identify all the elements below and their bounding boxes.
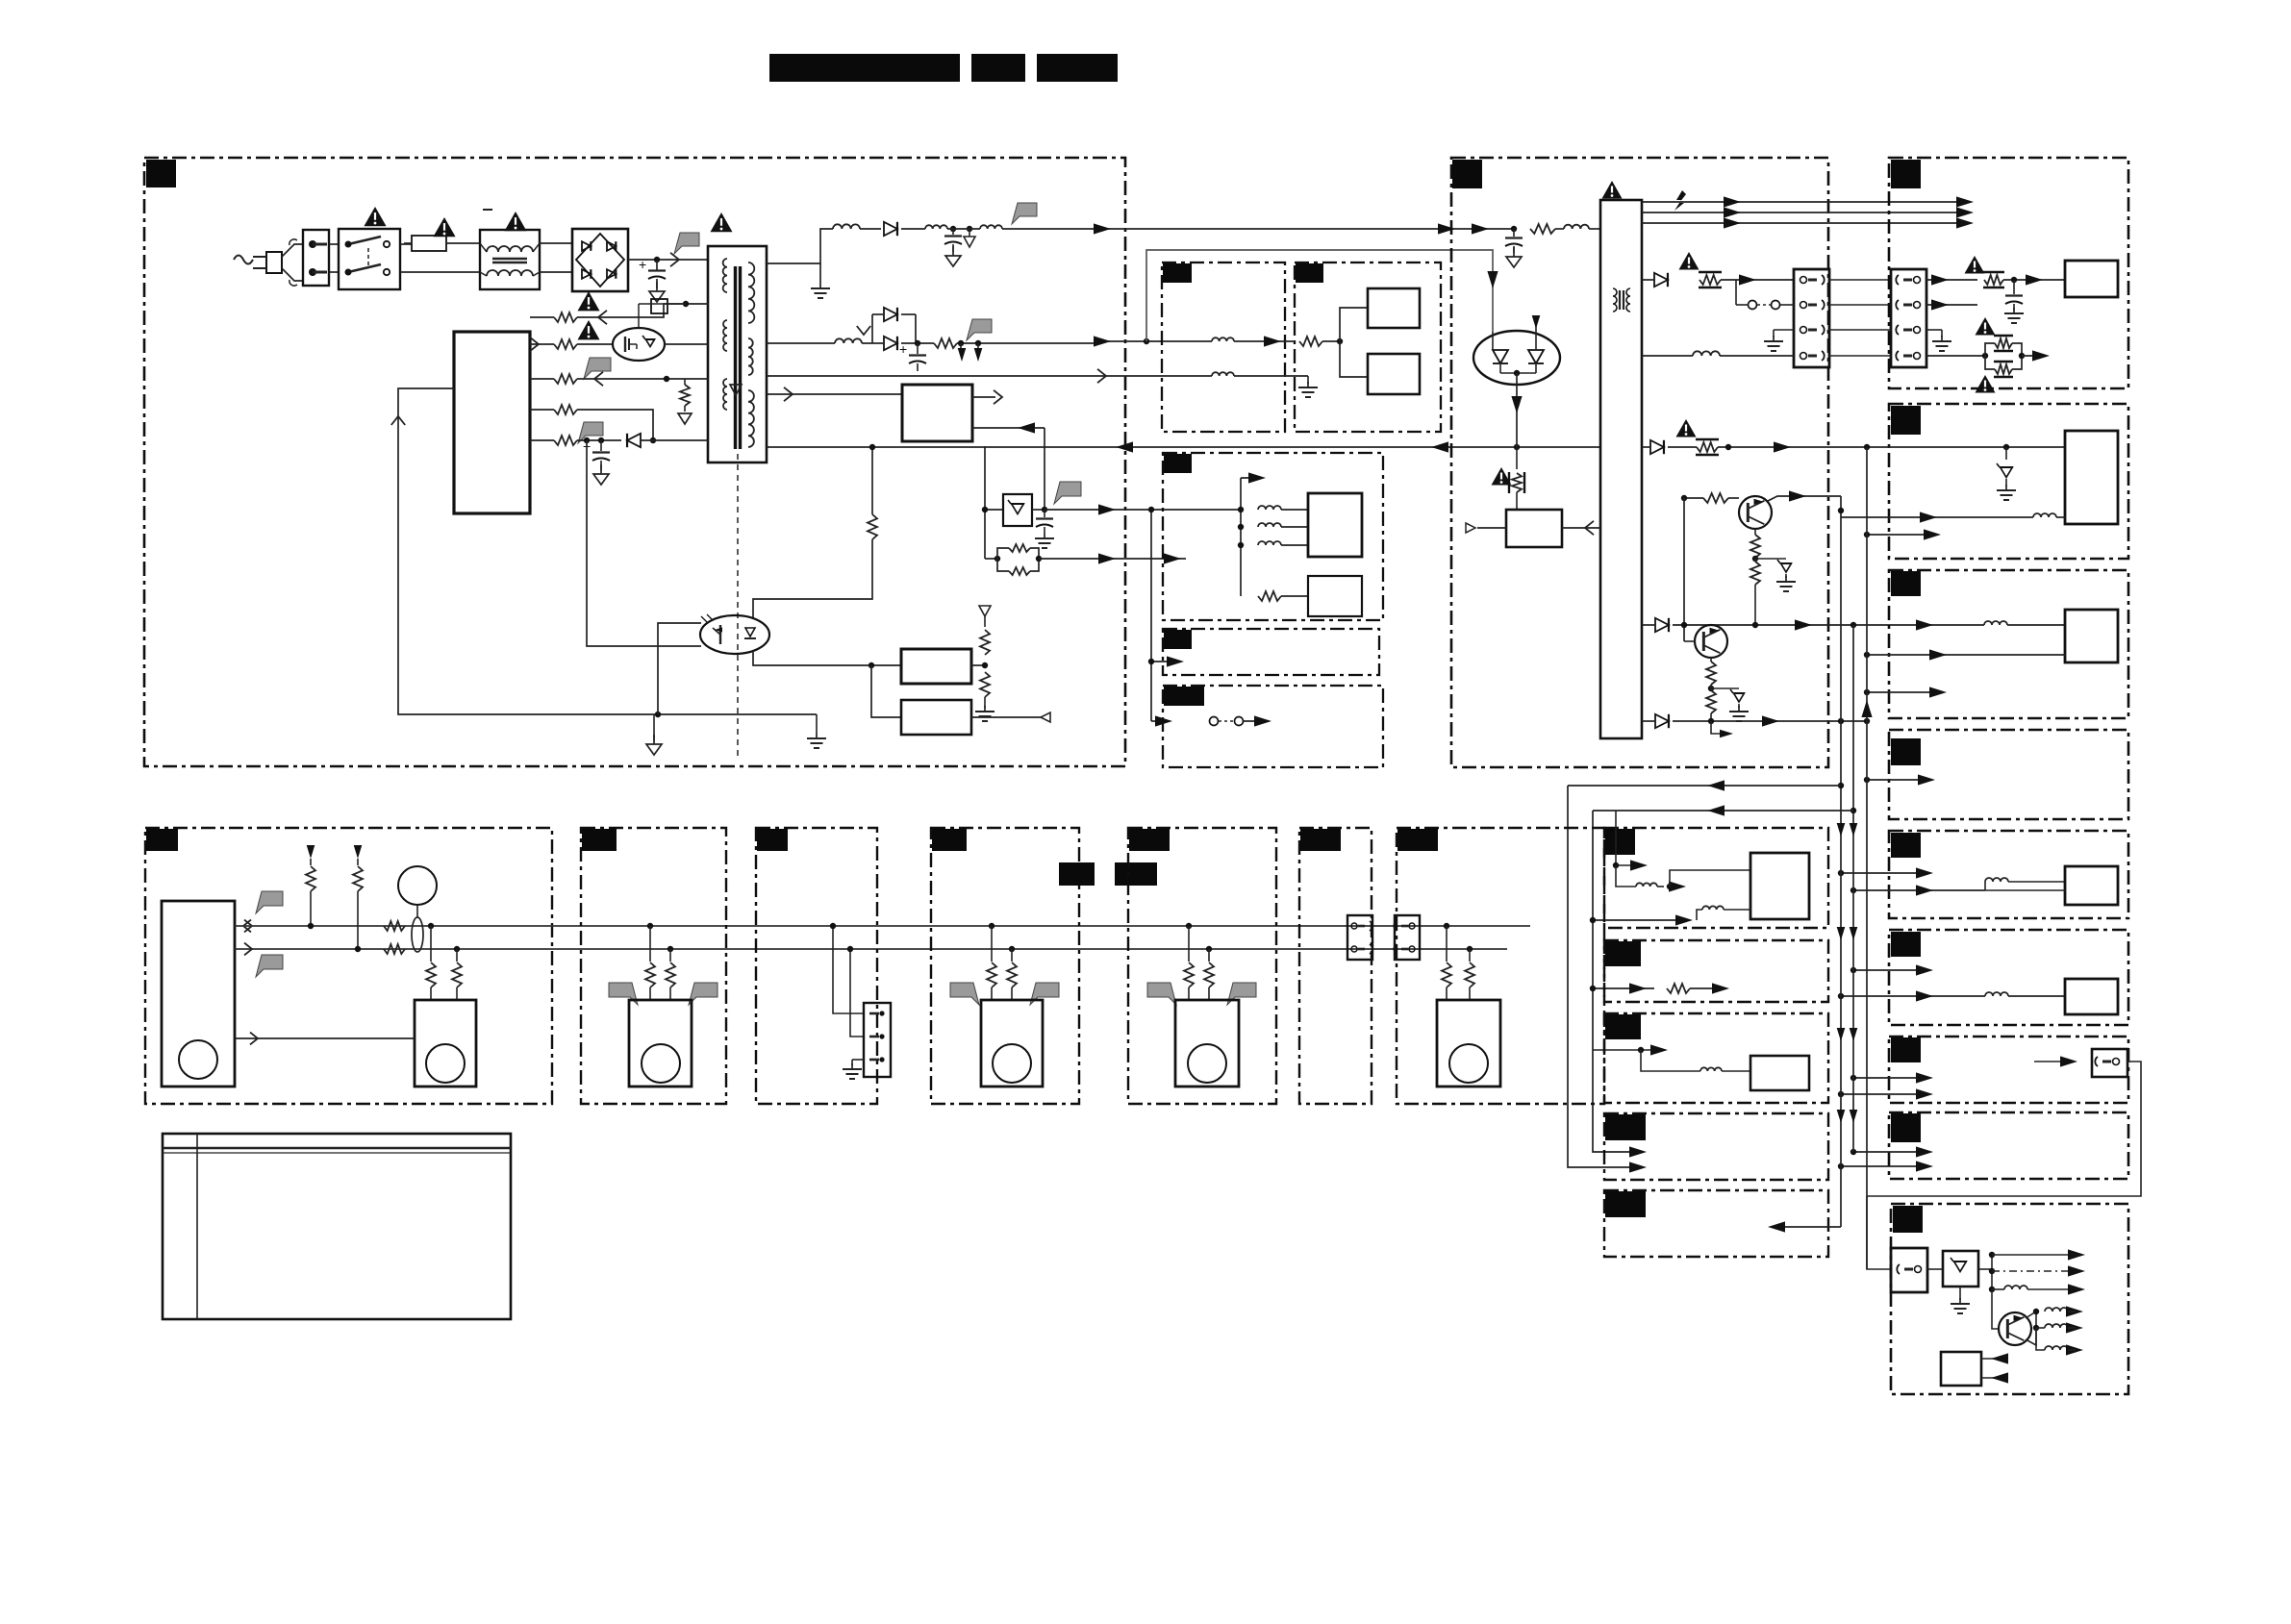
resistor R9 [554, 405, 577, 414]
row wire [530, 316, 554, 318]
terminal block J1 [303, 230, 329, 286]
capacitor C5 polarized [583, 438, 610, 485]
regulator block U3 [901, 700, 971, 735]
flag label [1227, 983, 1256, 1005]
inductor L3 [925, 225, 947, 229]
capacitor C4 [1035, 510, 1054, 548]
bus wire top [235, 925, 1530, 927]
warning triangle [1602, 181, 1623, 199]
flow arrow [670, 253, 679, 266]
arrow [974, 348, 983, 362]
arrow in [1981, 1377, 2005, 1379]
wire row 650 [1683, 498, 1685, 641]
sub box C2 outline [1295, 262, 1441, 432]
inductor L11 [2033, 513, 2056, 517]
board outline box M5 [1128, 828, 1276, 1104]
row3 [530, 378, 554, 380]
warning triangle [578, 291, 600, 311]
ground [1926, 330, 1951, 351]
wire [1234, 340, 1295, 342]
wire [628, 259, 708, 261]
diamond chevrons [243, 920, 252, 933]
box H4 label [1164, 630, 1192, 649]
resistor R15 [1530, 224, 1555, 234]
zener diode box D5 [982, 494, 1047, 526]
fusible resistor R17 [1699, 272, 1722, 287]
wire bus down2 [1852, 625, 1854, 1152]
sub box H3 outline [1163, 453, 1383, 620]
inductor L8 [1258, 506, 1281, 510]
power supply board outline box A [144, 158, 1125, 766]
main transformer T1 [708, 246, 767, 462]
zener diode D10 [1755, 559, 1796, 591]
wire [1684, 497, 1703, 499]
diode D7 [1654, 273, 1668, 287]
board outline box G2 [1889, 831, 2128, 918]
box H label [1605, 941, 1641, 966]
box A label [146, 160, 176, 187]
double arrows [1837, 823, 1846, 837]
capacitor C2 [944, 229, 962, 266]
resistor R6 [554, 339, 577, 349]
signal ground [646, 714, 662, 755]
block U4 [1368, 288, 1420, 328]
EHT wire 1 [1642, 201, 1968, 203]
resistor pair R19 R20 [1985, 336, 2025, 377]
box B label [1452, 160, 1482, 188]
inductor L21 [1641, 1050, 1750, 1071]
audio board outline box H [1604, 940, 1828, 1002]
ground [1764, 330, 1794, 351]
connector CN1 [1794, 269, 1829, 367]
row5 [530, 439, 554, 441]
wire [1593, 987, 1654, 989]
wire [540, 242, 572, 244]
connector CN4 [1891, 1248, 1927, 1292]
transistor Q3 [1695, 625, 1727, 658]
warning triangle [505, 212, 527, 231]
EHT wire 3 [1642, 222, 1968, 224]
resistor R31 [426, 926, 436, 1000]
connector CN5 [864, 1003, 891, 1077]
feedback vertical [398, 388, 817, 714]
video board outline box D [1889, 404, 2128, 559]
wire [1616, 811, 1640, 865]
AC plug P1 [253, 239, 303, 286]
wire 466 row [1718, 446, 2065, 448]
dashed switch link [1736, 280, 1794, 310]
wire [1853, 1151, 1926, 1153]
dashed isolation line [737, 454, 739, 760]
row4 [530, 409, 554, 411]
block U9 [2065, 261, 2118, 297]
wire [1044, 428, 1045, 510]
inductor L13 [1985, 878, 2008, 882]
wire [665, 343, 708, 345]
wire [1927, 1268, 1943, 1270]
wire arrow up [1241, 477, 1260, 479]
wire [1673, 720, 1867, 722]
box C label [1891, 160, 1921, 188]
sense divider chain [753, 447, 877, 619]
resistor R37 [1184, 923, 1194, 1000]
processor block U17 [162, 901, 235, 1087]
flag label [674, 233, 699, 254]
wire [1690, 987, 1722, 989]
resistor R34 [666, 946, 675, 1000]
flag label [967, 319, 992, 340]
warning triangle [1965, 256, 1985, 274]
chevron down [730, 385, 742, 395]
wire [1151, 661, 1177, 662]
gray loop wire [1146, 250, 1493, 341]
line output transformer T2 [1600, 200, 1642, 738]
audio out board outline box E [1889, 570, 2128, 718]
resistor R21 [1703, 493, 1728, 503]
wire tri in [1466, 523, 1506, 533]
box F label [1891, 738, 1921, 765]
resistor R7 [554, 374, 577, 384]
wire [428, 923, 434, 929]
wire [1768, 496, 1841, 501]
inductor L14 [1985, 992, 2008, 996]
flag label [578, 422, 603, 443]
wire +B rail [1002, 228, 1481, 230]
inductor L4 [980, 225, 1002, 229]
fuse F1 [404, 236, 480, 251]
block U10 [2065, 431, 2118, 524]
board outline box M4 [931, 828, 1079, 1104]
flag label [584, 358, 611, 379]
resistor R33 [645, 923, 655, 1000]
wire in [972, 427, 1045, 429]
circle pad [179, 1040, 217, 1079]
return wire 817 [1568, 785, 1841, 787]
EHT wire 2 [1642, 212, 1968, 213]
wire [1841, 872, 1926, 874]
wire [1562, 527, 1600, 529]
wire [833, 926, 864, 1013]
row2 [530, 343, 554, 345]
wire [2022, 355, 2043, 357]
wire [638, 304, 640, 328]
wire [1841, 1165, 1926, 1167]
resistor R36 [1007, 946, 1017, 1000]
notes table [163, 1134, 511, 1319]
board outline box M7 [1397, 828, 1604, 1104]
resistor R32 [452, 949, 462, 1000]
block U15 [1750, 853, 1809, 919]
box H2 label [1891, 932, 1921, 957]
flag label [1054, 482, 1081, 504]
board outline box B [1451, 158, 1828, 767]
side av board outline box L [1891, 1204, 2128, 1394]
wire bus down3 [1866, 447, 1868, 1269]
capacitor C7 [2004, 280, 2024, 323]
resistor R22 [1750, 529, 1760, 562]
wire [1853, 1077, 1926, 1079]
box M5 label [1129, 829, 1170, 851]
flag label [1030, 983, 1059, 1005]
warning triangle [364, 207, 386, 226]
connector CN3 [2034, 1049, 2127, 1077]
wire rail3 [767, 375, 1212, 377]
wire [957, 342, 1099, 344]
box M3 label [757, 829, 788, 851]
inductor L6 [1212, 337, 1234, 341]
circle sensor [398, 866, 437, 905]
inductor L17 [2036, 1327, 2045, 1329]
diode D4 [884, 337, 897, 350]
wire [767, 393, 902, 395]
double arrows [1837, 1028, 1846, 1041]
wire [577, 439, 621, 441]
diode D13 [1655, 714, 1669, 728]
warning triangle [578, 320, 600, 339]
wire [1516, 373, 1518, 447]
resistor R2 [934, 338, 957, 348]
box M1 label [146, 829, 178, 851]
chassis dashed vertical [0, 0, 1, 1]
wire [329, 243, 339, 245]
wire [235, 1037, 415, 1039]
resistor R13 [1299, 337, 1322, 346]
wire [1529, 228, 1531, 230]
resistor R27 [306, 845, 315, 929]
box M2 label [582, 829, 617, 851]
resistor R28 [353, 845, 363, 952]
speaker block SP4 [1175, 1000, 1239, 1087]
signal ground [0, 0, 1, 1]
wire [1841, 995, 1985, 997]
fusible resistor R18 [1983, 272, 2004, 287]
error amp block U8 [1506, 510, 1562, 547]
wire [947, 228, 980, 230]
flag label [689, 983, 718, 1005]
main board outline box M1 [145, 828, 552, 1104]
capacitor C6 [1505, 229, 1523, 267]
wire [1481, 228, 1514, 230]
wire [1684, 640, 1696, 642]
AC mains source [234, 256, 253, 264]
capacitor C1 polarized [639, 257, 666, 302]
wire [1673, 624, 1984, 626]
block U13 [2065, 979, 2118, 1014]
block U7 [1308, 576, 1362, 616]
resistor R29 [384, 921, 405, 931]
wire [1853, 889, 1985, 891]
box I label [1605, 1014, 1641, 1039]
box C1 label [1163, 263, 1192, 283]
wire [1985, 889, 2065, 891]
flag label [256, 891, 283, 913]
wire [1593, 1049, 1660, 1051]
wire [577, 304, 708, 317]
wire out [972, 396, 995, 398]
box K label [1605, 1191, 1646, 1217]
wire [0, 0, 1, 1]
wire return [1867, 1062, 2141, 1196]
box G2 label [1891, 833, 1921, 858]
wire [767, 229, 833, 263]
capacitor C3 polarized [899, 341, 926, 371]
regulator block U2 [901, 649, 971, 684]
speaker block SP5 [1437, 1000, 1500, 1087]
flag label [609, 983, 638, 1005]
fusible resistor R28b [1696, 439, 1719, 455]
wire [1238, 542, 1244, 548]
warning triangle [711, 212, 733, 232]
wire [1238, 524, 1244, 530]
speaker block SP1 [415, 1000, 476, 1087]
wire [984, 446, 986, 559]
box C2 label [1296, 263, 1323, 283]
warning triangle [433, 217, 455, 237]
resistor R11 [971, 606, 994, 721]
MOSFET Q1 in oval [613, 328, 665, 361]
wire [1150, 510, 1152, 721]
board outline box J [1604, 1113, 1828, 1180]
CRT board outline box C [1889, 158, 2128, 388]
inductor L15 [2004, 1286, 2027, 1289]
wire [1774, 1226, 1841, 1228]
bus wire bottom [235, 948, 1507, 950]
wire [1234, 375, 1308, 377]
wire [1853, 969, 1926, 971]
return wire 843 [1593, 810, 1853, 812]
wire [1841, 516, 2033, 518]
inductor L10 [1693, 351, 1720, 356]
wire [577, 343, 613, 345]
connector CN6 [1347, 915, 1372, 960]
wire [1867, 534, 1933, 536]
resistor R14 [1258, 591, 1281, 601]
block U5 [1368, 354, 1420, 394]
ground [1951, 1287, 1970, 1313]
wire [1978, 1268, 1992, 1270]
zener diode D12 [1711, 688, 1749, 721]
line filter L1 [480, 230, 540, 289]
double arrows [1837, 1110, 1846, 1123]
vertical 1630 [1568, 786, 1638, 1167]
diode box D14 [1943, 1251, 1978, 1287]
vertical 1656 [1593, 811, 1638, 1152]
optocoupler OC1 [700, 614, 769, 654]
wire [658, 623, 701, 714]
box M7 label [1397, 829, 1438, 851]
feedback wire [767, 446, 1600, 448]
connector CN7 [1394, 915, 1420, 960]
wire [577, 410, 653, 440]
diode D15 [1650, 440, 1664, 454]
resistor R25 [1706, 690, 1716, 713]
chevron [857, 326, 870, 335]
resistor R23 [1750, 562, 1760, 585]
resistor R30 [384, 944, 405, 954]
transistor Q2 [1739, 496, 1772, 529]
warning triangle [1492, 467, 1512, 486]
block U12 [2065, 866, 2118, 905]
resistor R38 [1204, 946, 1214, 1000]
diode D2 [884, 222, 897, 236]
wire out2 [1992, 1270, 2073, 1272]
speaker block SP2 [629, 1000, 692, 1087]
minus mark [483, 209, 492, 211]
resistor R24 [1706, 658, 1716, 691]
resistor R26 [1667, 984, 1690, 993]
block U16 [1750, 1056, 1809, 1090]
wire out1 [1992, 1254, 2073, 1256]
box H3 label [1164, 454, 1192, 473]
ellipse bead [412, 917, 423, 952]
resistor R8 [678, 379, 692, 424]
black tag [1115, 862, 1157, 886]
wire [1926, 355, 1985, 357]
resistor R10 [554, 436, 577, 445]
box H5 label [1164, 687, 1204, 706]
inductor L19 [1616, 865, 1750, 892]
wire [753, 651, 901, 665]
board outline box M6 [1299, 828, 1372, 1104]
wire [641, 439, 708, 441]
wire [1829, 279, 1891, 281]
ground [843, 1060, 864, 1079]
flag label [1012, 203, 1037, 224]
resistor R40 [1465, 946, 1474, 1000]
board outline box K [1604, 1190, 1828, 1257]
wire [400, 243, 412, 245]
ground [811, 283, 830, 298]
wire [1867, 654, 2065, 656]
resistor R39 [1442, 923, 1451, 1000]
box M4 label [932, 829, 967, 851]
wire [1039, 558, 1186, 560]
wire [901, 228, 925, 230]
inductor L7 [1212, 372, 1234, 376]
wire [577, 378, 708, 380]
wire [871, 665, 901, 717]
wire [1926, 279, 1977, 281]
inductor L20 [1697, 906, 1750, 920]
title bar block 2 [971, 54, 1025, 82]
board outline box H2 [1889, 930, 2128, 1025]
wire switch [1151, 720, 1166, 722]
wire [1238, 507, 1244, 512]
inductor L18 [2036, 1328, 2045, 1350]
inductor L2 [833, 224, 860, 229]
wire 5V rail from T1 [767, 342, 835, 344]
mains switch SW1 [339, 229, 400, 289]
wire bus down1 [1840, 496, 1842, 1227]
block U11 [2065, 610, 2118, 662]
ground [1298, 382, 1318, 397]
box L label [1893, 1206, 1923, 1233]
svg-text:+: + [899, 341, 907, 357]
bridge rectifier D1 [572, 229, 628, 291]
sub box C1 outline [1162, 262, 1285, 432]
svg-text:+: + [639, 257, 646, 272]
wire [901, 313, 916, 315]
wire [1593, 919, 1685, 921]
diode D9 [0, 0, 1, 1]
ground [807, 733, 826, 748]
resistor R5 [554, 312, 577, 322]
board outline box J2 [1889, 1112, 2128, 1179]
fusible resistor R16 [1509, 447, 1524, 510]
box I2 label [1891, 1037, 1921, 1062]
transistor Q4 [1992, 1289, 2039, 1345]
wire [1322, 340, 1340, 342]
